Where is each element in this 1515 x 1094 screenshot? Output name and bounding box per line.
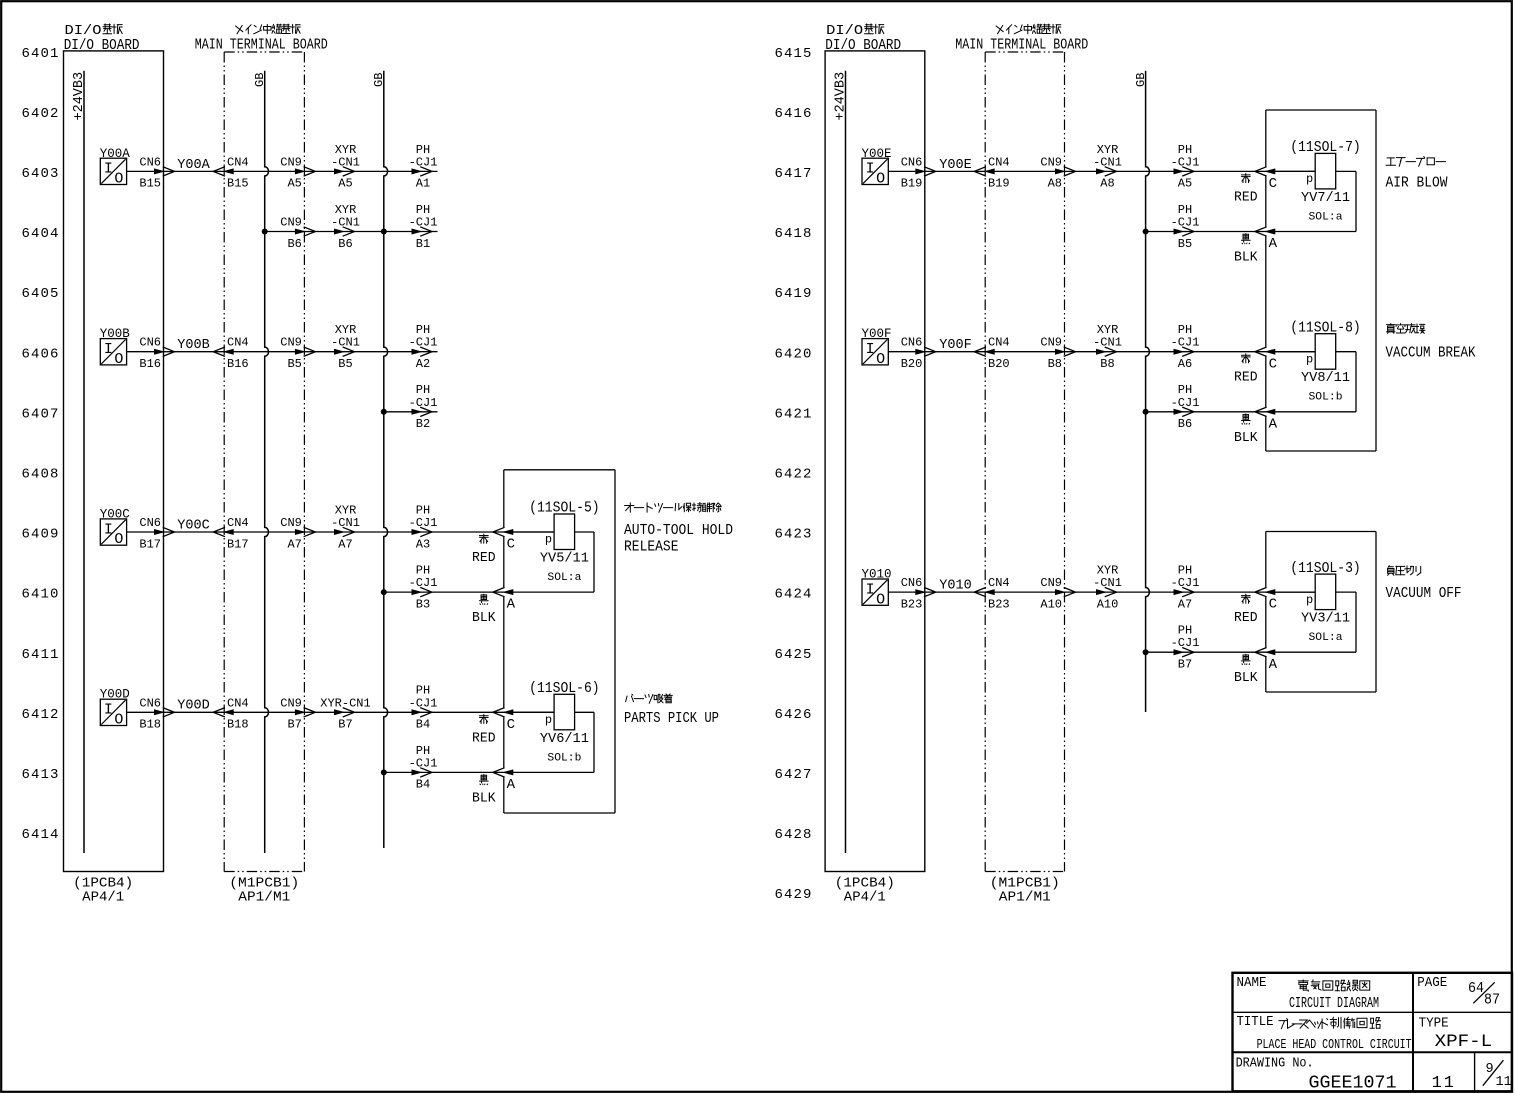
- I/O module Y00D: [100, 687, 130, 729]
- DI/O board title L: [64, 23, 140, 54]
- svg-text:A10: A10: [1097, 597, 1119, 611]
- svg-text:AIR BLOW: AIR BLOW: [1386, 176, 1448, 192]
- connector PH-CJ1 pin A3: [409, 503, 438, 551]
- svg-text:O: O: [114, 531, 123, 548]
- svg-text:Y00B: Y00B: [100, 326, 130, 341]
- svg-text:A1: A1: [416, 177, 430, 191]
- svg-text:CN6: CN6: [901, 155, 923, 169]
- connector CN6 pin B20: [901, 336, 936, 371]
- svg-text:A10: A10: [1040, 597, 1062, 611]
- svg-text:B17: B17: [139, 537, 161, 551]
- svg-text:AP4/1: AP4/1: [82, 891, 124, 906]
- connector PH-CJ1 pin B6: [1171, 383, 1200, 431]
- svg-text:SOL:a: SOL:a: [1309, 211, 1343, 223]
- svg-text:11: 11: [1432, 1074, 1456, 1093]
- svg-text:-CJ1: -CJ1: [409, 756, 438, 770]
- svg-text:C: C: [507, 717, 515, 733]
- wire Y00F from I/O to PH-CJ1 row 6420: [888, 351, 1315, 353]
- svg-text:6423: 6423: [774, 527, 812, 543]
- wire color label RED row 6424: [1234, 594, 1258, 626]
- svg-text:NAME: NAME: [1237, 975, 1267, 991]
- svg-text:6419: 6419: [774, 286, 812, 302]
- svg-text:B6: B6: [338, 237, 352, 251]
- svg-text:C: C: [1269, 176, 1277, 192]
- connector PH-CJ1 pin B4: [409, 744, 438, 792]
- svg-text:Y00D: Y00D: [100, 687, 130, 702]
- wire color label BLK row 6418: [1234, 234, 1258, 266]
- connector CN4 pin B20: [974, 336, 1009, 371]
- svg-text:CN4: CN4: [227, 516, 249, 530]
- svg-text:-CJ1: -CJ1: [409, 216, 438, 230]
- function label AUTO-TOOL HOLD RELEASE: [624, 503, 733, 556]
- wire Y00C from I/O to PH-CJ1 row 6409: [127, 531, 554, 533]
- svg-text:CN4: CN4: [227, 155, 249, 169]
- wire color label RED row 6420: [1234, 354, 1258, 386]
- svg-text:CN4: CN4: [988, 576, 1010, 590]
- svg-text:(M1PCB1): (M1PCB1): [229, 877, 299, 892]
- svg-text:O: O: [114, 351, 123, 368]
- svg-text:Y00E: Y00E: [862, 146, 892, 161]
- connector XYR-CN1 pin A7: [331, 503, 360, 551]
- junction gb2 row 6410: [381, 589, 387, 595]
- connector CN6 pin B23: [901, 576, 936, 611]
- svg-text:B1: B1: [416, 237, 430, 251]
- net label Y010: [939, 579, 972, 594]
- GB bus (right half): [1134, 71, 1150, 712]
- svg-text:A: A: [1269, 236, 1278, 252]
- net label Y00F: [939, 338, 972, 353]
- svg-text:YV5/11: YV5/11: [540, 551, 589, 567]
- svg-text:A5: A5: [287, 177, 301, 191]
- svg-text:-CN1: -CN1: [331, 516, 360, 530]
- svg-text:Y00C: Y00C: [100, 506, 130, 521]
- svg-text:A2: A2: [416, 357, 430, 371]
- svg-text:YV6/11: YV6/11: [540, 731, 589, 747]
- svg-text:TYPE: TYPE: [1419, 1015, 1449, 1031]
- terminal C of 11SOL-5: [493, 527, 515, 552]
- wire color label RED row 6412: [472, 714, 496, 746]
- MAIN TERMINAL BOARD (M1PCB1) AP1/M1 outline L: [224, 52, 304, 906]
- svg-text:(1PCB4): (1PCB4): [73, 877, 133, 892]
- svg-text:-CN1: -CN1: [1093, 336, 1122, 350]
- solenoid valve 11SOL-6 YV6/11: [504, 681, 600, 772]
- connector CN4 pin B15: [213, 155, 248, 190]
- terminal A of 11SOL-7: [1255, 227, 1278, 252]
- terminal C of 11SOL-7: [1255, 167, 1277, 192]
- svg-text:O: O: [876, 591, 885, 608]
- svg-text:p: p: [545, 533, 552, 547]
- svg-text:I: I: [104, 702, 113, 719]
- I/O module Y00C: [100, 506, 130, 548]
- title block NAME: CIRCUIT DIAGRAM: [1237, 975, 1380, 1012]
- terminal A of 11SOL-8: [1255, 407, 1278, 432]
- svg-text:Y00A: Y00A: [100, 146, 130, 161]
- svg-text:I: I: [866, 341, 875, 358]
- svg-text:SOL:a: SOL:a: [1309, 632, 1343, 644]
- connector PH-CJ1 pin A5: [1171, 143, 1200, 191]
- svg-text:YV7/11: YV7/11: [1301, 190, 1350, 206]
- svg-text:A5: A5: [1178, 177, 1192, 191]
- svg-text:AP4/1: AP4/1: [844, 891, 886, 906]
- svg-text:p: p: [545, 713, 552, 727]
- connector CN6 pin B16: [139, 336, 174, 371]
- svg-text:B4: B4: [416, 718, 430, 732]
- title block PAGE 64/87: [1417, 975, 1500, 1009]
- title block revision 9/11: [1483, 1060, 1512, 1090]
- +24VB3 power rail L: [72, 71, 87, 853]
- svg-text:-CJ1: -CJ1: [1171, 155, 1200, 169]
- svg-text:6420: 6420: [774, 346, 812, 362]
- net label Y00B: [177, 338, 210, 353]
- svg-text:CN9: CN9: [280, 216, 302, 230]
- svg-text:-CJ1: -CJ1: [409, 516, 438, 530]
- GB bus 1 (left, inside main terminal board): [253, 71, 269, 853]
- connector CN9 pin A7: [280, 516, 315, 551]
- svg-text:A: A: [1269, 416, 1278, 432]
- connector PH-CJ1 pin B7: [1171, 624, 1200, 672]
- svg-text:(1PCB4): (1PCB4): [835, 877, 895, 892]
- line number column 6401-6414: [21, 46, 59, 843]
- svg-text:B5: B5: [1178, 237, 1192, 251]
- solenoid enclosure box: [1266, 110, 1376, 451]
- connector PH-CJ1 pin A7: [1171, 564, 1200, 612]
- function label PARTS PICK UP: [624, 694, 719, 727]
- svg-text:RED: RED: [472, 731, 496, 746]
- wire color label BLK row 6425: [1234, 654, 1258, 686]
- svg-text:-CN1: -CN1: [331, 216, 360, 230]
- terminal A of 11SOL-5: [493, 587, 516, 612]
- svg-text:B7: B7: [1178, 658, 1192, 672]
- connector CN9 pin A5: [280, 155, 315, 190]
- svg-text:B6: B6: [1178, 417, 1192, 431]
- svg-text:6405: 6405: [21, 286, 59, 302]
- svg-text:-CJ1: -CJ1: [1171, 636, 1200, 650]
- svg-text:A7: A7: [338, 537, 352, 551]
- svg-text:-CJ1: -CJ1: [1171, 396, 1200, 410]
- svg-text:p: p: [1306, 593, 1313, 607]
- svg-text:PAGE: PAGE: [1417, 975, 1447, 991]
- net label Y00D: [177, 699, 210, 714]
- svg-text:6401: 6401: [21, 46, 59, 62]
- svg-text:SOL:b: SOL:b: [1309, 392, 1343, 404]
- terminal A of 11SOL-6: [493, 768, 516, 793]
- svg-text:O: O: [876, 171, 885, 188]
- svg-text:6408: 6408: [21, 467, 59, 483]
- title block TYPE XPF-L: [1419, 1015, 1493, 1052]
- svg-text:YV3/11: YV3/11: [1301, 611, 1350, 627]
- svg-text:CN4: CN4: [227, 696, 249, 710]
- svg-text:-CJ1: -CJ1: [409, 396, 438, 410]
- junction GB1 row 6404: [262, 229, 268, 235]
- connector XYR-CN1 pin B6: [331, 203, 360, 251]
- wire color label RED row 6409: [472, 534, 496, 566]
- connector PH-CJ1 pin A2: [409, 323, 438, 371]
- svg-text:GB: GB: [372, 73, 386, 87]
- svg-text:RED: RED: [472, 551, 496, 566]
- svg-text:GGEE1071: GGEE1071: [1309, 1074, 1397, 1094]
- svg-text:B16: B16: [227, 357, 249, 371]
- svg-text:GB: GB: [253, 73, 267, 87]
- svg-text:AP1/M1: AP1/M1: [999, 891, 1051, 906]
- svg-text:C: C: [1269, 597, 1277, 613]
- svg-text:Y010: Y010: [939, 579, 972, 594]
- svg-text:CN6: CN6: [139, 155, 161, 169]
- svg-text:SOL:b: SOL:b: [547, 752, 581, 764]
- connector XYR-CN1 pin B8: [1093, 323, 1122, 371]
- svg-text:DI/O BOARD: DI/O BOARD: [64, 37, 140, 54]
- connector CN9 pin B6: [280, 216, 315, 251]
- solenoid valve 11SOL-8 YV8/11: [1266, 320, 1361, 411]
- terminal C of 11SOL-6: [493, 708, 515, 733]
- svg-text:AUTO-TOOL HOLD: AUTO-TOOL HOLD: [624, 523, 733, 539]
- svg-text:O: O: [876, 351, 885, 368]
- connector CN6 pin B19: [901, 155, 936, 190]
- svg-text:Y00D: Y00D: [177, 699, 210, 714]
- connector XYR-CN1 pin A8: [1093, 143, 1122, 191]
- wire color label BLK row 6410: [472, 594, 496, 626]
- I/O module Y010: [862, 567, 892, 609]
- svg-text:B8: B8: [1048, 357, 1062, 371]
- svg-text:(11SOL-5): (11SOL-5): [529, 501, 600, 517]
- connector PH-CJ1 pin A6: [1171, 323, 1200, 371]
- solenoid valve 11SOL-5 YV5/11: [504, 501, 600, 592]
- svg-text:6418: 6418: [774, 226, 812, 242]
- connector PH-CJ1 pin B1: [409, 203, 438, 251]
- svg-text:B5: B5: [287, 357, 301, 371]
- solenoid valve 11SOL-3 YV3/11: [1266, 561, 1361, 652]
- solenoid enclosure box: [1266, 532, 1376, 693]
- svg-text:I: I: [104, 521, 113, 538]
- svg-text:B4: B4: [416, 778, 430, 792]
- svg-text:6406: 6406: [21, 346, 59, 362]
- svg-text:RELEASE: RELEASE: [624, 540, 679, 556]
- svg-text:BLK: BLK: [472, 611, 496, 626]
- wire GB stub row 6413: [384, 771, 594, 773]
- junction gb2 row 6418: [1143, 229, 1149, 235]
- svg-text:6426: 6426: [774, 707, 812, 723]
- svg-text:6427: 6427: [774, 767, 812, 783]
- svg-text:B23: B23: [988, 597, 1010, 611]
- svg-text:I: I: [866, 161, 875, 178]
- svg-text:Y010: Y010: [862, 567, 892, 582]
- svg-text:B15: B15: [227, 177, 249, 191]
- svg-text:GB: GB: [1134, 73, 1148, 87]
- svg-text:6424: 6424: [774, 587, 812, 603]
- svg-text:CN9: CN9: [1040, 576, 1062, 590]
- svg-text:SOL:a: SOL:a: [547, 572, 581, 584]
- junction gb2 row 6407: [381, 409, 387, 415]
- svg-text:B17: B17: [227, 537, 249, 551]
- svg-text:87: 87: [1484, 993, 1500, 1009]
- line number column 6415-6429: [774, 46, 812, 903]
- svg-text:CN4: CN4: [988, 155, 1010, 169]
- wire Y010 from I/O to PH-CJ1 row 6424: [888, 591, 1315, 593]
- svg-text:YV8/11: YV8/11: [1301, 370, 1350, 386]
- wire Y00E from I/O to PH-CJ1 row 6417: [888, 170, 1315, 172]
- svg-text:B19: B19: [901, 177, 923, 191]
- svg-text:6409: 6409: [21, 527, 59, 543]
- svg-text:B7: B7: [338, 718, 352, 732]
- svg-text:I: I: [104, 161, 113, 178]
- svg-text:6412: 6412: [21, 707, 59, 723]
- svg-text:MAIN TERMINAL BOARD: MAIN TERMINAL BOARD: [955, 37, 1088, 54]
- svg-text:A7: A7: [287, 537, 301, 551]
- svg-text:-CN1: -CN1: [331, 155, 360, 169]
- svg-text:DI/O: DI/O: [65, 23, 102, 39]
- svg-text:CN6: CN6: [139, 336, 161, 350]
- svg-text:6422: 6422: [774, 467, 812, 483]
- svg-text:(11SOL-8): (11SOL-8): [1290, 320, 1361, 336]
- svg-text:CN9: CN9: [280, 516, 302, 530]
- svg-text:I: I: [866, 581, 875, 598]
- svg-text:(11SOL-7): (11SOL-7): [1290, 140, 1361, 156]
- svg-text:6421: 6421: [774, 406, 812, 422]
- svg-text:CIRCUIT DIAGRAM: CIRCUIT DIAGRAM: [1289, 996, 1379, 1012]
- connector XYR-CN1 pin A10: [1093, 564, 1122, 612]
- connector XYR-CN1 pin A5: [331, 143, 360, 191]
- svg-text:A: A: [1269, 657, 1278, 673]
- svg-text:A6: A6: [1178, 357, 1192, 371]
- svg-text:CN9: CN9: [280, 696, 302, 710]
- svg-text:6413: 6413: [21, 767, 59, 783]
- terminal A of 11SOL-3: [1255, 648, 1278, 673]
- connector CN6 pin B18: [139, 696, 174, 731]
- svg-text:(11SOL-3): (11SOL-3): [1290, 561, 1361, 577]
- svg-text:RED: RED: [1234, 611, 1258, 626]
- wire GB stub row 6418: [1146, 231, 1356, 233]
- connector CN4 pin B19: [974, 155, 1009, 190]
- svg-text:B19: B19: [988, 177, 1010, 191]
- connector CN9 pin A8: [1040, 155, 1075, 190]
- svg-text:CN4: CN4: [227, 336, 249, 350]
- svg-text:VACUUM OFF: VACUUM OFF: [1386, 586, 1462, 602]
- svg-text:CN6: CN6: [901, 336, 923, 350]
- wire GB stub row 6421: [1146, 411, 1356, 413]
- svg-text:Y00E: Y00E: [939, 158, 972, 173]
- DI/O board (1PCB4) AP4/1 L: [64, 51, 164, 906]
- svg-text:Y00B: Y00B: [177, 338, 210, 353]
- svg-text:CN6: CN6: [139, 516, 161, 530]
- svg-text:PARTS PICK UP: PARTS PICK UP: [624, 711, 719, 727]
- svg-text:CN6: CN6: [901, 576, 923, 590]
- svg-text:-CJ1: -CJ1: [409, 576, 438, 590]
- svg-text:RED: RED: [1234, 371, 1258, 386]
- svg-text:B7: B7: [287, 718, 301, 732]
- svg-text:(11SOL-6): (11SOL-6): [529, 681, 600, 697]
- svg-text:C: C: [1269, 356, 1277, 372]
- svg-text:CN9: CN9: [280, 155, 302, 169]
- connector CN9 pin B7: [280, 696, 315, 731]
- svg-text:Y00F: Y00F: [939, 338, 972, 353]
- svg-text:+24VB3: +24VB3: [834, 72, 849, 121]
- svg-text:B20: B20: [988, 357, 1010, 371]
- svg-text:BLK: BLK: [1234, 431, 1258, 446]
- svg-text:CN9: CN9: [1040, 155, 1062, 169]
- svg-text:CN9: CN9: [280, 336, 302, 350]
- svg-text:p: p: [1306, 172, 1313, 186]
- function label VACCUM BREAK: [1386, 324, 1476, 362]
- svg-text:DI/O: DI/O: [826, 23, 863, 39]
- DI/O board (1PCB4) AP4/1 R: [825, 51, 925, 906]
- svg-text:Y00F: Y00F: [862, 326, 892, 341]
- wire Y00A from I/O to PH-CJ1 row 6403: [127, 170, 438, 172]
- wire GB stub row 6410: [384, 591, 594, 593]
- connector PH-CJ1 pin B5: [1171, 203, 1200, 251]
- net label Y00A: [177, 158, 210, 173]
- svg-text:-CJ1: -CJ1: [1171, 216, 1200, 230]
- svg-text:O: O: [114, 171, 123, 188]
- svg-text:B20: B20: [901, 357, 923, 371]
- connector CN4 pin B23: [974, 576, 1009, 611]
- MAIN TERMINAL BOARD title R: [955, 24, 1088, 53]
- wire GB interconnect row 6404: [265, 231, 438, 233]
- svg-text:+24VB3: +24VB3: [72, 72, 87, 121]
- connector CN9 pin A10: [1040, 576, 1075, 611]
- I/O module Y00A: [100, 146, 130, 188]
- svg-text:A8: A8: [1100, 177, 1114, 191]
- svg-text:Y00A: Y00A: [177, 158, 210, 173]
- I/O module Y00F: [862, 326, 892, 368]
- svg-text:A5: A5: [338, 177, 352, 191]
- svg-text:6415: 6415: [774, 46, 812, 62]
- svg-text:6417: 6417: [774, 166, 812, 182]
- svg-text:B6: B6: [287, 237, 301, 251]
- svg-text:6411: 6411: [21, 647, 59, 663]
- title block sheet 11: [1432, 1074, 1456, 1093]
- svg-text:11: 11: [1496, 1075, 1512, 1090]
- connector CN4 pin B17: [213, 516, 248, 551]
- svg-text:I: I: [104, 341, 113, 358]
- connector PH-CJ1 pin A1: [409, 143, 438, 191]
- junction gb2 row 6425: [1143, 649, 1149, 655]
- svg-text:O: O: [114, 712, 123, 729]
- svg-text:Y00C: Y00C: [177, 518, 210, 533]
- terminal C of 11SOL-3: [1255, 587, 1277, 612]
- svg-text:A: A: [507, 597, 516, 613]
- function label AIR BLOW: [1386, 157, 1448, 192]
- svg-text:BLK: BLK: [1234, 251, 1258, 266]
- wire color label RED row 6417: [1234, 174, 1258, 206]
- svg-text:B16: B16: [139, 357, 161, 371]
- junction gb2 row 6413: [381, 769, 387, 775]
- svg-text:B3: B3: [416, 597, 430, 611]
- svg-text:B15: B15: [139, 177, 161, 191]
- svg-text:C: C: [507, 537, 515, 553]
- svg-text:p: p: [1306, 352, 1313, 366]
- connector PH-CJ1 pin B4: [409, 684, 438, 732]
- connector CN4 pin B16: [213, 336, 248, 371]
- svg-text:VACCUM BREAK: VACCUM BREAK: [1386, 346, 1476, 362]
- junction GB2 row 6404: [381, 229, 387, 235]
- svg-text:-CN1: -CN1: [331, 336, 360, 350]
- wire color label BLK row 6421: [1234, 414, 1258, 446]
- svg-text:6410: 6410: [21, 587, 59, 603]
- svg-text:MAIN TERMINAL BOARD: MAIN TERMINAL BOARD: [195, 37, 328, 54]
- wire Y00D from I/O to PH-CJ1 row 6412: [127, 711, 554, 713]
- junction gb2 row 6421: [1143, 409, 1149, 415]
- svg-text:6403: 6403: [21, 166, 59, 182]
- svg-text:DI/O BOARD: DI/O BOARD: [825, 37, 901, 54]
- +24VB3 power rail R: [834, 71, 849, 853]
- svg-text:6428: 6428: [774, 827, 812, 843]
- connector CN4 pin B18: [213, 696, 248, 731]
- svg-text:B18: B18: [227, 718, 249, 732]
- net label Y00C: [177, 518, 210, 533]
- svg-text:B2: B2: [416, 417, 430, 431]
- svg-text:B8: B8: [1100, 357, 1114, 371]
- connector PH-CJ1 pin B2: [409, 383, 438, 431]
- svg-text:6407: 6407: [21, 406, 59, 422]
